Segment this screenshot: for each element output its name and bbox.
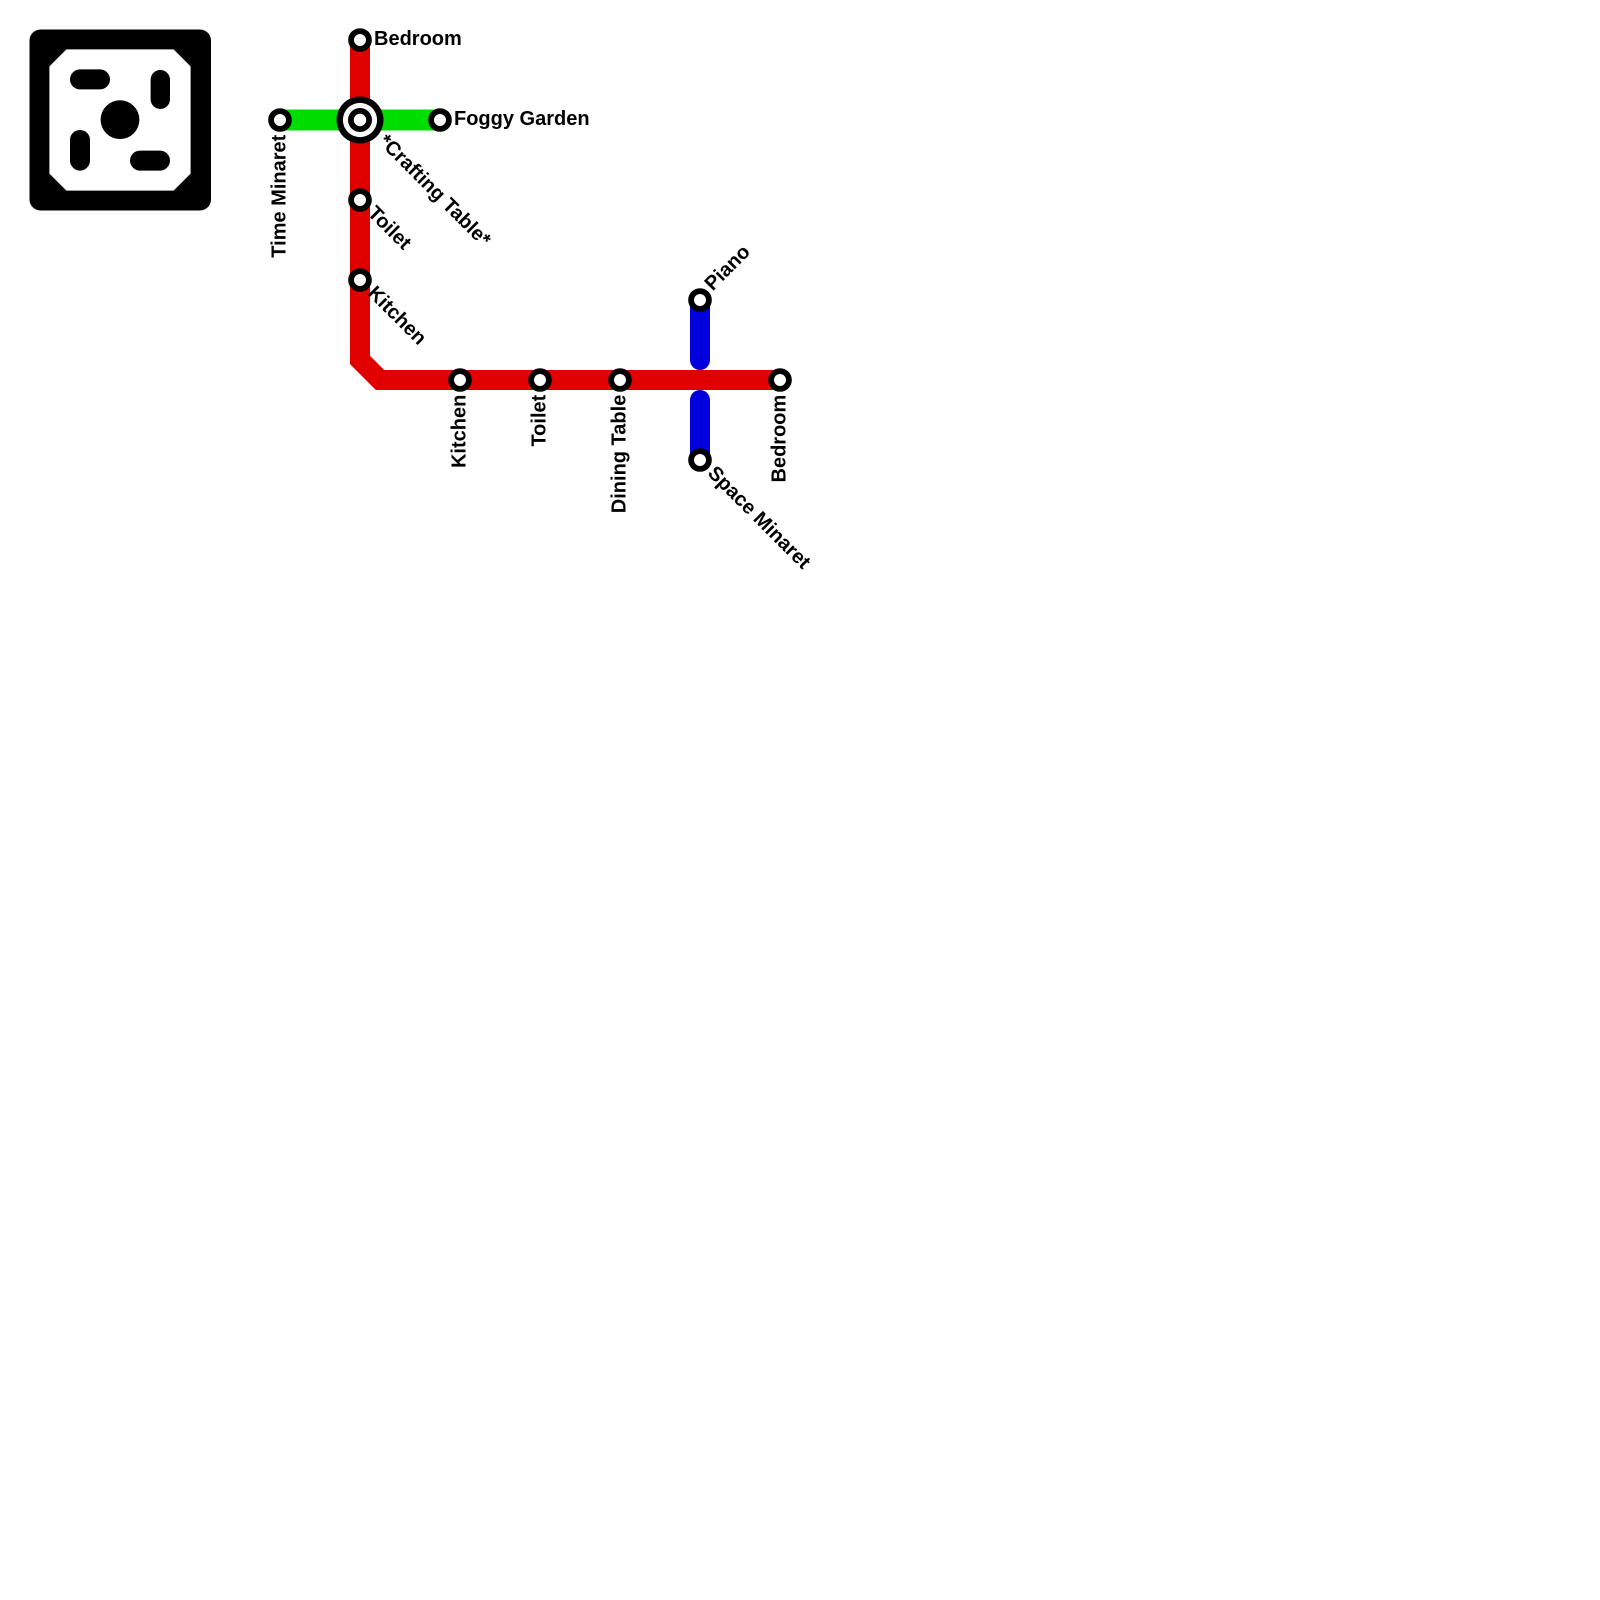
station Dining Table: [611, 371, 629, 389]
station Bedroom (right): [771, 371, 789, 389]
svg-text:Bedroom: Bedroom: [769, 395, 791, 483]
station Bedroom (top): [351, 31, 369, 49]
station Foggy Garden: [431, 111, 449, 129]
logo bottom-right horizontal pill: [130, 151, 170, 171]
blue line upper segment (Piano to red line): [690, 300, 710, 360]
station Toilet (bottom): [531, 371, 549, 389]
logo outer rounded square: [30, 30, 212, 211]
svg-text:Foggy Garden: Foggy Garden: [454, 108, 590, 130]
interchange Crafting Table inner black: [348, 108, 372, 132]
interchange Crafting Table outer black: [337, 97, 384, 144]
logo inner white octagon: [49, 49, 190, 190]
station Time Minaret: [271, 111, 289, 129]
interchange Crafting Table white ring: [343, 103, 377, 137]
green line: [280, 110, 440, 131]
logo top-right vertical pill: [151, 70, 170, 109]
station Toilet (vertical): [351, 191, 369, 209]
svg-text:Time Minaret: Time Minaret: [269, 134, 291, 257]
station Kitchen (bottom): [451, 371, 469, 389]
red line: [360, 40, 780, 380]
svg-text:Kitchen: Kitchen: [449, 395, 471, 468]
station Piano: [691, 291, 709, 309]
blue line lower segment (red line to Space Minaret): [690, 400, 710, 460]
svg-text:Bedroom: Bedroom: [374, 28, 462, 50]
logo bottom-left vertical pill: [70, 130, 90, 171]
svg-text:Dining Table: Dining Table: [609, 395, 631, 514]
interchange Crafting Table white center: [354, 114, 366, 126]
logo top-left horizontal pill: [70, 69, 110, 89]
station Space Minaret: [691, 451, 709, 469]
svg-text:Toilet: Toilet: [529, 394, 551, 446]
station Kitchen (vertical): [351, 271, 369, 289]
logo center circle: [101, 100, 140, 139]
